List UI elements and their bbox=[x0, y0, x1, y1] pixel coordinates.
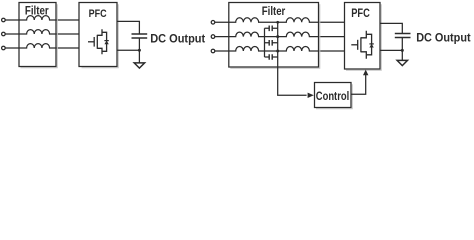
svg-text:PFC: PFC bbox=[351, 6, 370, 20]
svg-text:Filter: Filter bbox=[25, 4, 49, 17]
svg-text:DC Output: DC Output bbox=[150, 32, 205, 45]
svg-text:PFC: PFC bbox=[89, 8, 107, 20]
svg-text:Control: Control bbox=[316, 89, 349, 103]
svg-text:Filter: Filter bbox=[262, 5, 286, 18]
svg-text:DC Output: DC Output bbox=[416, 31, 470, 44]
